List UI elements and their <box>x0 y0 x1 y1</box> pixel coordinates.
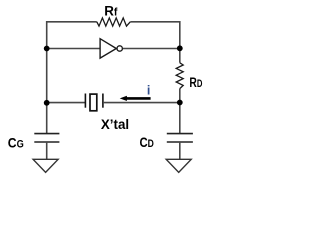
ground left <box>33 159 58 172</box>
wire inverter output <box>123 48 180 50</box>
svg-text:Rf: Rf <box>104 3 117 19</box>
junction dot left inverter input <box>44 46 50 52</box>
wire crystal left <box>47 102 86 104</box>
svg-text:RD: RD <box>189 75 202 91</box>
current arrow i <box>120 96 151 101</box>
inverter U1 <box>100 39 116 58</box>
inverter bubble <box>117 46 122 51</box>
junction dot right inverter output <box>177 45 183 51</box>
svg-text:X’tal: X’tal <box>101 117 129 133</box>
wire crystal right <box>103 102 180 104</box>
svg-text:i: i <box>147 84 150 98</box>
wire CD to ground <box>179 142 181 159</box>
crystal X'tal left plate <box>84 94 86 108</box>
wire top-left horizontal and left vertical <box>47 22 97 134</box>
junction dot right crystal <box>177 100 183 106</box>
crystal X'tal body <box>90 94 97 111</box>
svg-text:CD: CD <box>140 135 155 151</box>
junction dot left crystal <box>44 100 50 106</box>
wire inverter input <box>47 48 100 50</box>
wire CG to ground <box>46 142 48 159</box>
resistor RD <box>176 63 183 89</box>
wire right vertical lower <box>179 89 181 134</box>
wire top-right horizontal and right vertical upper <box>130 22 180 63</box>
capacitor CG bottom plate <box>34 141 59 143</box>
resistor Rf <box>97 18 131 26</box>
capacitor CG top plate <box>34 133 59 135</box>
capacitor CD top plate <box>167 133 193 135</box>
crystal X'tal right plate <box>102 94 104 108</box>
ground right <box>166 159 191 172</box>
capacitor CD bottom plate <box>167 141 193 143</box>
svg-text:CG: CG <box>8 136 24 152</box>
